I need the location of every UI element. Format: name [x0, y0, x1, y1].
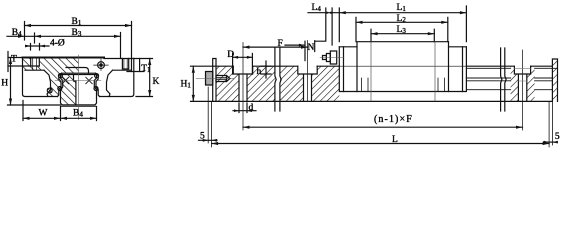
svg-text:L: L — [392, 135, 398, 145]
K dimension — [149, 59, 151, 97]
flange underside left — [25, 69, 44, 71]
block inner surface over rail — [62, 72, 96, 74]
grease nipple (end view) — [98, 62, 105, 69]
hole2 outline — [298, 66, 317, 101]
rail hole white cut — [74, 75, 79, 82]
svg-text:T: T — [11, 54, 17, 64]
L2 dimension — [356, 21, 448, 23]
svg-text:4-Ø: 4-Ø — [50, 39, 65, 49]
hole1 white — [233, 66, 252, 74]
B1 dimension — [25, 25, 132, 27]
rail bottom — [62, 104, 95, 106]
hole centerlines — [243, 41, 523, 131]
svg-text:B3: B3 — [72, 28, 82, 38]
ball upper-right — [95, 74, 99, 78]
h dimension — [265, 61, 267, 78]
flange underside right — [113, 69, 132, 71]
B3 / B4 top dimension line — [7, 35, 121, 37]
rail section hatches — [216, 66, 275, 102]
H dimension — [10, 58, 12, 106]
svg-text:B4: B4 — [12, 28, 22, 38]
block left face — [23, 58, 58, 97]
right half bolt hole (outline) — [122, 59, 128, 70]
leg profile right — [107, 70, 113, 96]
ball lower-left — [58, 87, 62, 91]
rail section hatch (left half) — [61, 75, 79, 106]
D dimension — [233, 54, 253, 75]
rail bottom edge — [213, 100, 553, 102]
ball return left — [47, 88, 52, 93]
4-O hole dia dimension — [31, 44, 40, 51]
hole3 white — [514, 66, 530, 74]
N dimension — [285, 44, 304, 46]
leg profile left — [44, 70, 51, 96]
H1 dimension — [192, 66, 194, 101]
hole3 crossing surface lines — [514, 68, 530, 81]
seal outline right half — [96, 73, 100, 96]
svg-text:B1: B1 — [72, 17, 82, 27]
ball upper-left — [58, 74, 62, 78]
(n-1)xF dimension — [243, 126, 523, 128]
svg-text:D: D — [227, 50, 234, 60]
end bolt — [213, 59, 216, 102]
svg-text:5: 5 — [200, 131, 205, 141]
T dimension — [7, 52, 9, 72]
5 left dimension — [203, 139, 217, 142]
svg-text:L1: L1 — [397, 3, 407, 13]
block section hatch left half — [23, 58, 79, 97]
svg-text:L2: L2 — [397, 14, 407, 24]
svg-text:W: W — [39, 109, 48, 119]
L3 dimension — [371, 33, 434, 35]
svg-text:d: d — [249, 103, 254, 113]
block side view — [339, 47, 466, 92]
rail hole outline — [74, 75, 76, 106]
svg-text:K: K — [153, 77, 160, 87]
svg-text:T1: T1 — [141, 64, 151, 74]
block top edge — [23, 57, 105, 59]
ball cross right — [86, 77, 92, 83]
rail end faces — [552, 59, 557, 101]
svg-text:h: h — [257, 67, 262, 77]
d dimension — [239, 103, 247, 113]
bolt hole outline — [31, 58, 40, 67]
svg-text:L4: L4 — [312, 3, 322, 13]
bolt hole white cut — [31, 58, 40, 67]
hole1 outline — [233, 66, 252, 101]
svg-text:L3: L3 — [397, 25, 407, 35]
hole2 white — [298, 66, 317, 74]
centerline horizontal (balls) — [55, 80, 101, 82]
block right face — [100, 59, 134, 97]
svg-text:H1: H1 — [181, 79, 192, 89]
T1 dimension — [127, 71, 144, 73]
end cap outline right — [66, 68, 89, 74]
svg-text:B4: B4 — [73, 109, 83, 119]
F dimension — [243, 46, 308, 48]
W / B4 bottom dimensions — [23, 101, 97, 121]
hole3 outline — [514, 66, 530, 101]
rail outline — [61, 74, 97, 76]
break lines — [275, 48, 281, 111]
svg-text:(n-1)×F: (n-1)×F — [374, 114, 413, 125]
5 right dimension — [544, 141, 558, 144]
centerline vertical — [78, 55, 80, 120]
svg-text:5: 5 — [555, 132, 560, 142]
ball lower-right — [94, 87, 98, 91]
svg-text:N: N — [308, 43, 315, 53]
L dimension — [208, 87, 552, 147]
rail bottom chamfer line — [61, 106, 97, 108]
grease nipple side view — [330, 51, 336, 64]
rail top edge — [213, 65, 553, 67]
svg-text:H: H — [1, 79, 8, 89]
L4 dimension — [308, 12, 339, 14]
rail groove lines right of block — [466, 68, 557, 89]
L1 dimension — [339, 12, 466, 14]
svg-text:F: F — [278, 39, 283, 49]
ball cross left — [62, 77, 68, 83]
